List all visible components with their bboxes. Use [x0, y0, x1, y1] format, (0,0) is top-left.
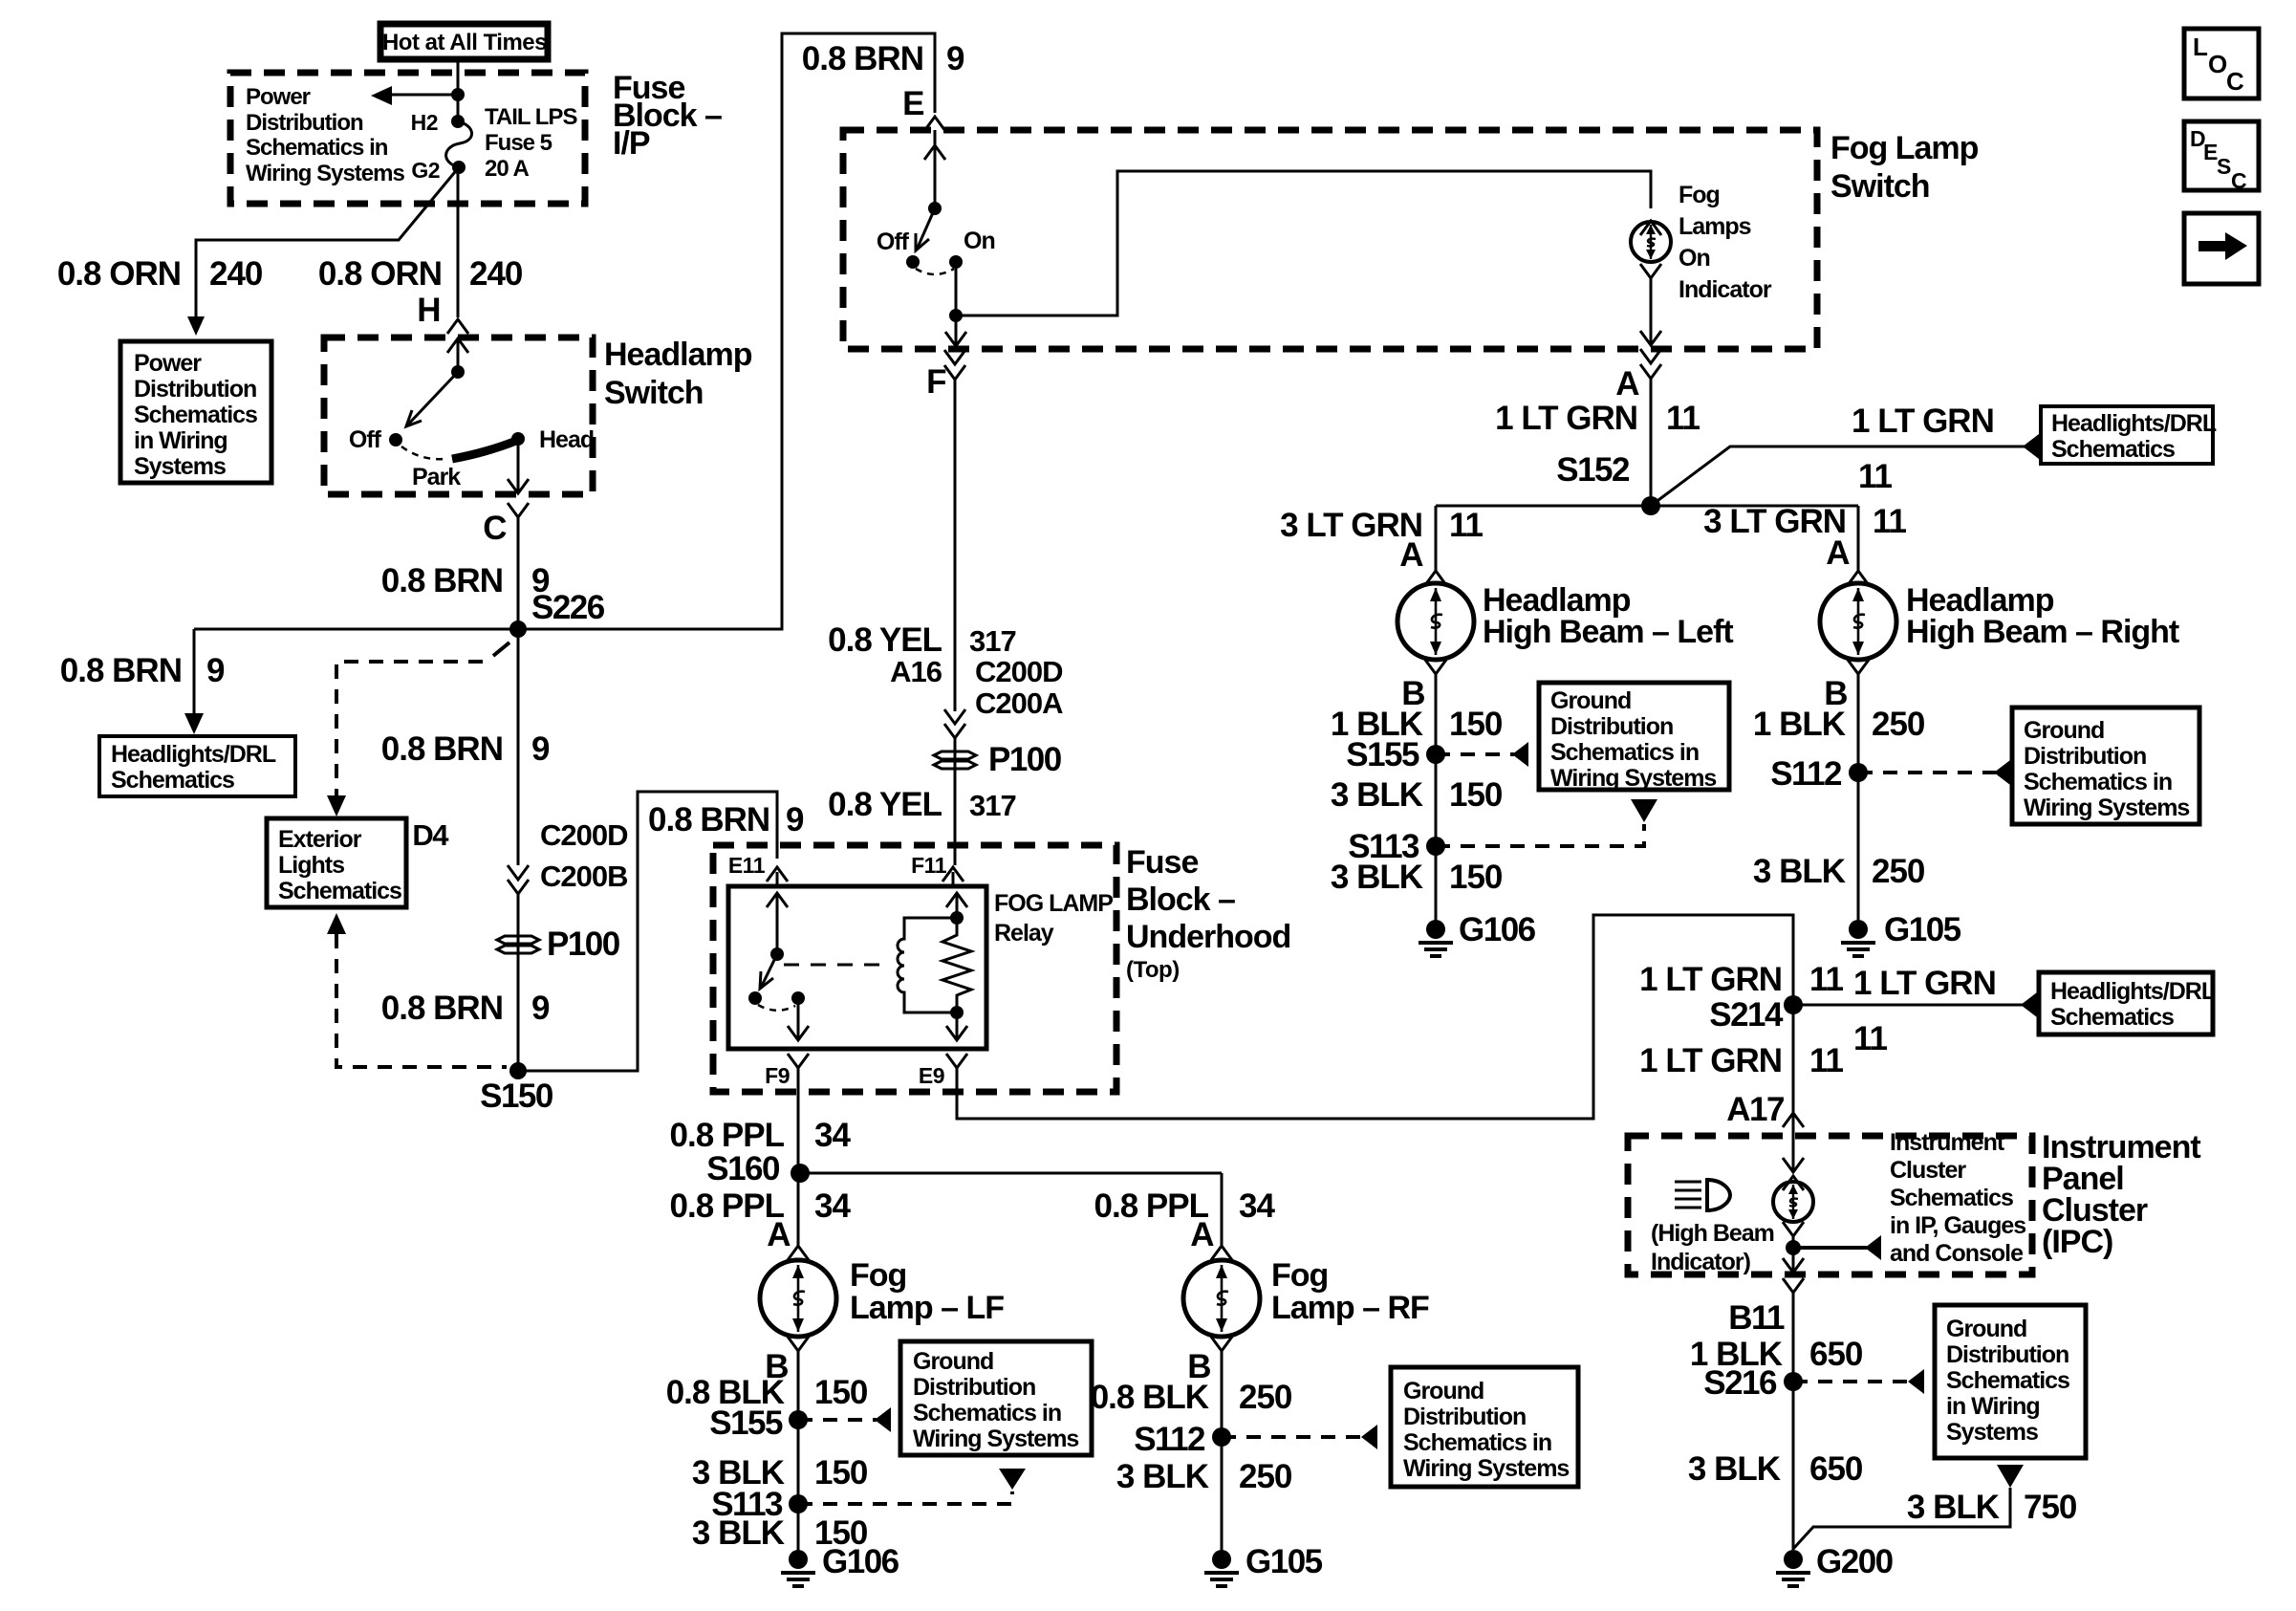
- svg-text:Switch: Switch: [1830, 168, 1930, 205]
- svg-text:On: On: [1679, 245, 1710, 272]
- dashed reference S112 to ground box: [1858, 771, 1996, 774]
- svg-text:Off: Off: [349, 426, 382, 453]
- svg-text:B11: B11: [1728, 1299, 1785, 1337]
- svg-text:11: 11: [1809, 961, 1844, 998]
- svg-text:0.8 YEL: 0.8 YEL: [828, 786, 942, 823]
- svg-text:Wiring Systems: Wiring Systems: [1550, 765, 1716, 792]
- label 0.8 BRN 9 (E11 feed): [648, 801, 804, 838]
- label: Fog Lamp Switch: [1830, 130, 1979, 205]
- node: fog switch output junction: [949, 309, 963, 322]
- svg-text:3 BLK: 3 BLK: [1331, 859, 1423, 896]
- label 1 BLK 150: [1331, 706, 1503, 743]
- svg-text:3 BLK: 3 BLK: [1116, 1458, 1209, 1495]
- dashed reference S113 to ground box arrow: [1436, 799, 1657, 846]
- wire On down to junction: [955, 262, 958, 316]
- wire S152 to Headlights/DRL (diagonal): [1651, 446, 2025, 506]
- svg-text:G106: G106: [1459, 911, 1536, 948]
- svg-text:C: C: [2231, 168, 2246, 193]
- svg-text:250: 250: [1239, 1458, 1292, 1495]
- wire G2 diagonal to left branch: [196, 167, 459, 317]
- wire S152 bus to both headlamps: [1436, 505, 1858, 508]
- svg-text:E11: E11: [728, 853, 766, 878]
- svg-text:Schematics in: Schematics in: [2024, 769, 2172, 795]
- svg-text:Lamp – LF: Lamp – LF: [850, 1290, 1004, 1326]
- label: Instrument Panel Cluster (IPC): [2042, 1129, 2200, 1260]
- svg-text:0.8 ORN: 0.8 ORN: [318, 255, 442, 293]
- svg-text:3 BLK: 3 BLK: [692, 1514, 785, 1552]
- svg-text:Fuse: Fuse: [1126, 844, 1198, 881]
- svg-text:S226: S226: [531, 589, 605, 626]
- label: Fuse Block - Underhood (Top): [1126, 844, 1290, 955]
- svg-text:Fog: Fog: [850, 1257, 906, 1294]
- svg-text:Lamp – RF: Lamp – RF: [1271, 1290, 1429, 1326]
- ground G105 (fog RF): [1204, 1550, 1239, 1586]
- svg-text:Headlamp: Headlamp: [604, 337, 752, 373]
- svg-text:C200D: C200D: [975, 655, 1063, 688]
- fuse F5 (TAIL LPS Fuse 5 20 A): [446, 121, 472, 167]
- svg-text:34: 34: [814, 1117, 851, 1154]
- svg-text:1 BLK: 1 BLK: [1753, 706, 1846, 743]
- svg-text:Wiring Systems: Wiring Systems: [246, 161, 404, 186]
- lamp: high beam indicator: [1773, 1182, 1813, 1222]
- fuse block I/P dashed box: [230, 73, 585, 204]
- dashed reference S155 to ground box: [1436, 752, 1514, 756]
- relay coil: [898, 918, 957, 1012]
- svg-text:E9: E9: [919, 1063, 944, 1088]
- label 0.8 BRN 9: [381, 730, 550, 768]
- svg-text:A: A: [1399, 536, 1423, 574]
- svg-text:High Beam – Left: High Beam – Left: [1483, 614, 1733, 650]
- label 3 BLK 150: [692, 1514, 868, 1552]
- svg-text:11: 11: [1809, 1042, 1844, 1079]
- svg-text:150: 150: [1449, 859, 1503, 896]
- wire A down to S152: [1650, 379, 1653, 506]
- dashed arc between contacts: [758, 1005, 795, 1011]
- svg-text:Exterior: Exterior: [278, 826, 362, 853]
- svg-text:Schematics: Schematics: [1890, 1185, 2013, 1211]
- svg-text:S112: S112: [1770, 755, 1842, 793]
- node: branch junction: [451, 88, 465, 101]
- relay resistor: [942, 918, 971, 1012]
- svg-text:34: 34: [1239, 1187, 1275, 1225]
- svg-text:A: A: [1190, 1216, 1214, 1253]
- text: Power Distribution Schematics in Wiring Systems (inside fuse block): [246, 84, 404, 186]
- svg-text:FOG LAMP: FOG LAMP: [994, 890, 1113, 917]
- headlamp switch pivot node: [451, 365, 465, 379]
- svg-text:9: 9: [206, 652, 225, 689]
- right headlamp branch wire: [1857, 506, 1860, 571]
- label 0.8 ORN 240 (left branch): [57, 255, 263, 293]
- svg-text:250: 250: [1872, 853, 1925, 890]
- Ground Distribution box (fog mid): [900, 1341, 1092, 1455]
- contact On (fog): [949, 255, 963, 269]
- label 3 BLK 150: [1331, 859, 1503, 896]
- contact Off: [389, 433, 402, 446]
- svg-text:240: 240: [209, 255, 263, 293]
- svg-text:in Wiring: in Wiring: [134, 427, 227, 454]
- label 0.8 BRN 9 (left branch): [60, 652, 225, 689]
- dashed reference S112 to ground box (fog RF): [1222, 1435, 1363, 1439]
- label 0.8 ORN 240 (main): [318, 255, 523, 293]
- label 3 BLK 150: [692, 1454, 868, 1491]
- svg-text:150: 150: [1449, 776, 1503, 814]
- label 1 BLK 250: [1753, 706, 1925, 743]
- svg-text:Headlights/DRL: Headlights/DRL: [111, 741, 276, 768]
- text: Instrument Cluster Schematics in IP, Gauges and Console: [1890, 1129, 2025, 1267]
- svg-text:Distribution: Distribution: [1550, 713, 1673, 740]
- svg-text:317: 317: [969, 624, 1016, 658]
- dashed reference S216 to ground box: [1793, 1380, 1910, 1383]
- svg-text:0.8 BRN: 0.8 BRN: [381, 562, 503, 599]
- indicator lamp down to junction: [1783, 1222, 1804, 1236]
- lamp: Headlamp High Beam - Right: [1820, 583, 1896, 660]
- svg-text:34: 34: [814, 1187, 851, 1225]
- wire S226 left branch: [194, 628, 518, 631]
- label: Fuse Block - I/P: [613, 70, 722, 162]
- splice S150: [509, 1062, 527, 1079]
- wire F: fog lamp switch output down to F11: [954, 380, 957, 711]
- svg-text:1 LT GRN: 1 LT GRN: [1639, 1042, 1782, 1079]
- svg-text:TAIL LPS: TAIL LPS: [485, 104, 577, 130]
- dashed wire below Exterior box down to S150: [327, 913, 507, 1067]
- svg-text:0.8 BRN: 0.8 BRN: [802, 40, 923, 77]
- label 0.8 PPL 34: [670, 1117, 852, 1154]
- svg-text:Power: Power: [134, 350, 202, 377]
- svg-text:H2: H2: [411, 110, 438, 135]
- pin B (fog lamp LF): [788, 1337, 809, 1351]
- svg-text:Lights: Lights: [278, 852, 344, 879]
- dashed reference S113 to ground box arrow (fog): [798, 1469, 1026, 1504]
- svg-text:G105: G105: [1884, 911, 1961, 948]
- svg-text:1 LT GRN: 1 LT GRN: [1495, 400, 1637, 437]
- label 1 LT GRN 11 (below S214): [1639, 1042, 1843, 1079]
- wire from Hot box down to H2: [457, 59, 460, 121]
- FOG LAMP relay box: [728, 886, 986, 1049]
- left headlamp branch wire: [1435, 506, 1438, 571]
- wire S160 to RF branch: [800, 1172, 1222, 1175]
- wire H down to headlamp switch: [457, 167, 460, 317]
- connector chevrons on F wire: [944, 709, 965, 724]
- svg-text:Indicator): Indicator): [1651, 1249, 1751, 1275]
- inline connector P100 (middle): [934, 751, 976, 769]
- dashed reference S155 to ground box (fog): [798, 1418, 877, 1422]
- main wire S226 down to D4: [517, 629, 520, 865]
- label 0.8 BRN 9 (above S226): [381, 562, 550, 599]
- svg-text:Ground: Ground: [913, 1348, 993, 1375]
- svg-text:S155: S155: [1346, 736, 1419, 773]
- svg-text:Distribution: Distribution: [1946, 1341, 2069, 1368]
- svg-text:0.8 BRN: 0.8 BRN: [648, 801, 769, 838]
- label 3 BLK 650: [1688, 1450, 1863, 1488]
- wire to P100: [517, 894, 520, 1071]
- wire 3 BLK 750 from ground box arrow down to G200: [1793, 1465, 2024, 1549]
- svg-text:Underhood: Underhood: [1126, 919, 1290, 955]
- label 0.8 BRN 9: [381, 990, 550, 1027]
- pin B11: [1783, 1278, 1804, 1293]
- inline connector P100 (left): [497, 936, 539, 953]
- ground G106 (left headlamp): [1419, 920, 1453, 956]
- wire F9 down to S160: [797, 1068, 800, 1173]
- icon: high beam symbol: [1675, 1180, 1730, 1210]
- Headlights/DRL Schematics box (lower right): [2039, 972, 2216, 1034]
- label (High Beam Indicator): [1651, 1220, 1774, 1275]
- svg-text:Headlights/DRL: Headlights/DRL: [2050, 978, 2216, 1005]
- svg-text:(Top): (Top): [1126, 957, 1180, 983]
- svg-text:240: 240: [469, 255, 523, 293]
- svg-text:C200D: C200D: [540, 818, 628, 852]
- svg-text:Schematics in: Schematics in: [1550, 739, 1699, 766]
- relay pivot node: [770, 947, 784, 961]
- lamp: Fog Lamp - RF: [1183, 1260, 1260, 1337]
- svg-text:650: 650: [1809, 1450, 1863, 1488]
- wire S150 up-over to E11: [518, 792, 777, 1071]
- label 0.8 BLK 250: [1091, 1379, 1292, 1416]
- svg-text:Fog Lamp: Fog Lamp: [1830, 130, 1979, 166]
- svg-text:S160: S160: [706, 1150, 780, 1187]
- svg-text:G2: G2: [411, 158, 440, 183]
- label 3 BLK 250: [1753, 853, 1925, 890]
- svg-text:Fog: Fog: [1679, 182, 1720, 208]
- svg-text:11: 11: [1666, 400, 1700, 437]
- svg-text:9: 9: [946, 40, 964, 77]
- relay arm arrow: [761, 954, 777, 988]
- ground G106 (fog LF): [781, 1550, 815, 1586]
- svg-text:0.8 BRN: 0.8 BRN: [381, 990, 503, 1027]
- svg-text:11: 11: [1873, 503, 1907, 540]
- node G2: [452, 161, 466, 174]
- coil wire down to E9: [956, 1012, 959, 1040]
- svg-text:S150: S150: [480, 1078, 553, 1115]
- lamp: Fog Lamps On Indicator: [1631, 222, 1671, 262]
- svg-text:High Beam – Right: High Beam – Right: [1906, 614, 2179, 650]
- svg-text:Distribution: Distribution: [134, 376, 256, 403]
- svg-text:Schematics: Schematics: [111, 767, 234, 794]
- wire E9 to S214 riser: [957, 915, 1793, 1119]
- svg-text:0.8 BLK: 0.8 BLK: [1091, 1379, 1209, 1416]
- svg-text:F: F: [926, 363, 946, 401]
- pin B (fog lamp RF): [1211, 1337, 1232, 1351]
- svg-text:11: 11: [1858, 458, 1893, 495]
- wire contact down to F9: [797, 998, 800, 1040]
- dashed branch from S226 to Exterior Lights Schematics: [327, 642, 509, 816]
- svg-text:L: L: [2193, 33, 2208, 61]
- svg-text:0.8 YEL: 0.8 YEL: [828, 621, 942, 659]
- RF fog branch wire: [1221, 1173, 1224, 1246]
- svg-text:1 LT GRN: 1 LT GRN: [1639, 961, 1782, 998]
- svg-text:G106: G106: [822, 1543, 899, 1580]
- svg-text:(IPC): (IPC): [2042, 1224, 2112, 1260]
- svg-text:Block –: Block –: [1126, 882, 1235, 918]
- wire indicator down to A: [1640, 264, 1661, 278]
- svg-text:Headlights/DRL: Headlights/DRL: [2051, 410, 2217, 437]
- svg-text:Wiring Systems: Wiring Systems: [1403, 1455, 1569, 1482]
- arrow down into Power Distribution box: [187, 316, 205, 336]
- svg-text:11: 11: [1449, 507, 1484, 544]
- label 3 BLK 750: [1907, 1489, 2077, 1526]
- Exterior Lights Schematics box: [267, 818, 406, 907]
- svg-text:S152: S152: [1556, 451, 1630, 489]
- lamp: Fog Lamp - LF: [760, 1260, 836, 1337]
- relay coil interlock dashed: [784, 964, 888, 967]
- relay contact (NO): [748, 991, 762, 1005]
- headlamp switch dashed box: [324, 337, 593, 494]
- svg-text:Switch: Switch: [604, 375, 704, 411]
- svg-text:F11: F11: [911, 853, 947, 878]
- svg-text:Fog: Fog: [1271, 1257, 1328, 1294]
- svg-text:On: On: [964, 228, 995, 254]
- svg-text:Relay: Relay: [994, 920, 1054, 947]
- svg-text:Schematics: Schematics: [134, 402, 257, 428]
- svg-text:650: 650: [1809, 1336, 1863, 1373]
- svg-text:250: 250: [1239, 1379, 1292, 1416]
- svg-text:0.8 BRN: 0.8 BRN: [381, 730, 503, 768]
- svg-text:Systems: Systems: [1946, 1419, 2038, 1446]
- svg-text:C200B: C200B: [540, 860, 628, 893]
- relay coil pin F11: [952, 872, 955, 886]
- svg-text:3 BLK: 3 BLK: [1688, 1450, 1781, 1488]
- svg-text:150: 150: [814, 1374, 868, 1411]
- wire junction to indicator (up and over): [956, 171, 1651, 316]
- svg-text:Park: Park: [412, 464, 461, 490]
- svg-text:Head: Head: [539, 426, 594, 453]
- svg-text:E: E: [902, 85, 923, 122]
- label Fog Lamps On Indicator: [1679, 182, 1772, 303]
- dashed arc Off-On: [916, 269, 954, 274]
- svg-text:P100: P100: [547, 925, 620, 963]
- fog switch wire in to pivot: [934, 130, 937, 208]
- svg-text:A: A: [1826, 534, 1850, 572]
- indicator chevron: [1640, 221, 1661, 235]
- svg-text:S112: S112: [1134, 1421, 1205, 1458]
- label 0.8 PPL 34 (LF): [670, 1187, 852, 1225]
- label 0.8 YEL A16 317 C200D C200A: [828, 621, 1063, 720]
- svg-text:Schematics in: Schematics in: [913, 1400, 1061, 1426]
- svg-text:H: H: [417, 292, 440, 329]
- Fuse Block Underhood dashed box: [713, 845, 1116, 1092]
- svg-text:Schematics: Schematics: [1946, 1367, 2069, 1394]
- svg-text:S214: S214: [1709, 996, 1784, 1034]
- ground G200: [1776, 1550, 1810, 1586]
- svg-text:A: A: [767, 1216, 791, 1253]
- svg-text:(High Beam: (High Beam: [1651, 1220, 1774, 1247]
- wire node to console reference: [1793, 1246, 1867, 1250]
- svg-text:Ground: Ground: [1403, 1378, 1484, 1404]
- svg-text:C200A: C200A: [975, 686, 1063, 720]
- svg-text:Cluster: Cluster: [1890, 1157, 1966, 1184]
- svg-text:Ground: Ground: [1550, 687, 1631, 714]
- contact Off (fog): [906, 255, 920, 269]
- Fog Lamp Switch dashed box: [843, 130, 1817, 349]
- svg-text:Distribution: Distribution: [2024, 743, 2146, 770]
- arrow out of IPC: [1783, 1258, 1804, 1273]
- Ground Distribution box (bottom right): [1935, 1305, 2086, 1458]
- dashed arc Off to Park: [401, 446, 445, 459]
- pin A (fog switch): [1640, 349, 1661, 363]
- svg-text:3 BLK: 3 BLK: [1331, 776, 1423, 814]
- fog switch arm arrow: [917, 208, 935, 250]
- svg-text:C: C: [483, 510, 507, 547]
- svg-text:150: 150: [814, 1454, 868, 1491]
- wire C down to S226: [517, 517, 520, 629]
- svg-text:Wiring Systems: Wiring Systems: [913, 1426, 1078, 1452]
- pin C connector: [508, 503, 529, 517]
- arrow box: [2184, 213, 2259, 284]
- svg-text:20 A: 20 A: [485, 156, 529, 182]
- label 0.8 BLK 150: [666, 1374, 868, 1411]
- svg-text:Ground: Ground: [2024, 717, 2104, 744]
- Hot at All Times box: [380, 24, 548, 59]
- svg-text:G105: G105: [1245, 1543, 1323, 1580]
- svg-text:0.8 PPL: 0.8 PPL: [670, 1117, 785, 1154]
- LOC box: [2184, 29, 2259, 98]
- svg-text:3 BLK: 3 BLK: [1907, 1489, 2000, 1526]
- svg-text:Schematics: Schematics: [2051, 436, 2175, 463]
- svg-text:Hot at All Times: Hot at All Times: [382, 30, 547, 55]
- svg-text:P100: P100: [988, 741, 1062, 778]
- contact Head: [511, 432, 525, 446]
- svg-text:250: 250: [1872, 706, 1925, 743]
- svg-text:Distribution: Distribution: [1403, 1404, 1526, 1430]
- Instrument Panel Cluster dashed box: [1628, 1136, 2032, 1274]
- svg-text:750: 750: [2024, 1489, 2077, 1526]
- label 1 LT GRN 11 (above S214): [1639, 961, 1843, 998]
- Headlights/DRL Schematics box (left): [99, 736, 295, 796]
- svg-text:A: A: [1615, 365, 1639, 403]
- thick arc Park to Head: [452, 441, 516, 459]
- svg-text:Instrument: Instrument: [1890, 1129, 2005, 1156]
- pin F: [944, 350, 965, 364]
- svg-text:3 LT GRN: 3 LT GRN: [1703, 503, 1846, 540]
- Ground Distribution box (far right): [2012, 708, 2199, 824]
- headlamp switch: wire to pivot: [457, 338, 460, 372]
- IPC wire in with arrow: [1792, 1113, 1795, 1172]
- svg-text:Distribution: Distribution: [913, 1374, 1035, 1401]
- wire S226 right branch up and over to E: [518, 33, 935, 629]
- svg-text:G200: G200: [1816, 1543, 1894, 1580]
- Power Distribution Schematics box: [120, 341, 271, 483]
- node in IPC: [1786, 1240, 1801, 1255]
- svg-text:Indicator: Indicator: [1679, 276, 1772, 303]
- wire S214 to Headlights/DRL box: [1793, 1004, 2023, 1007]
- svg-text:S: S: [2217, 154, 2231, 179]
- label 0.8 YEL 317: [828, 786, 1016, 823]
- svg-text:9: 9: [531, 990, 550, 1027]
- svg-text:E: E: [2203, 140, 2218, 164]
- pin B (right headlamp): [1848, 660, 1869, 674]
- svg-text:A16: A16: [890, 655, 942, 688]
- svg-text:11: 11: [1853, 1020, 1888, 1057]
- label 1 LT GRN 11: [1495, 400, 1700, 437]
- relay contact to F9: [791, 991, 805, 1005]
- svg-text:Ground: Ground: [1946, 1316, 2026, 1342]
- Headlights/DRL Schematics box (upper right): [2041, 406, 2217, 464]
- svg-text:9: 9: [531, 730, 550, 768]
- svg-text:317: 317: [969, 789, 1016, 822]
- svg-text:150: 150: [1449, 706, 1503, 743]
- svg-text:1 LT GRN: 1 LT GRN: [1852, 403, 1994, 440]
- svg-text:Wiring Systems: Wiring Systems: [2024, 795, 2189, 821]
- DESC box: [2184, 121, 2259, 193]
- svg-text:Off: Off: [877, 229, 910, 255]
- svg-text:and Console: and Console: [1890, 1240, 2024, 1267]
- label 1 BLK 650: [1690, 1336, 1863, 1373]
- svg-text:Fuse 5: Fuse 5: [485, 130, 552, 156]
- label 3 BLK 250: [1116, 1458, 1292, 1495]
- svg-text:0.8 ORN: 0.8 ORN: [57, 255, 181, 293]
- svg-text:S155: S155: [709, 1404, 783, 1442]
- svg-text:3 BLK: 3 BLK: [1753, 853, 1846, 890]
- fog switch pivot node: [928, 202, 942, 215]
